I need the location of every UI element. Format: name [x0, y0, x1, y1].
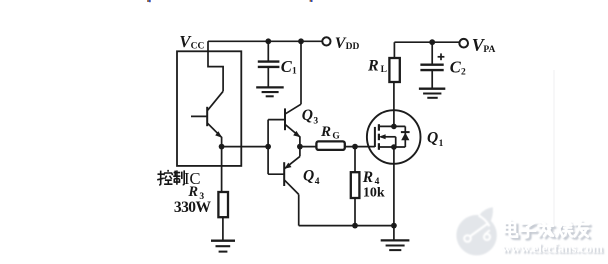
- svg-text:G: G: [332, 131, 340, 141]
- svg-text:C: C: [281, 57, 293, 76]
- transistor inside IC: [191, 91, 223, 146]
- resistor RG: [316, 141, 344, 150]
- svg-text:330W: 330W: [174, 199, 212, 216]
- wire R4 top: [354, 147, 356, 173]
- transistor Q3: [268, 104, 301, 146]
- label RG: [320, 124, 340, 142]
- label R3: [187, 184, 204, 202]
- wire bottom rail: [299, 225, 394, 227]
- label plus C2: [438, 53, 445, 60]
- label Q1: [427, 130, 444, 150]
- terminal VPA: [459, 39, 468, 48]
- wire bases vertical: [267, 120, 269, 175]
- svg-text:10k: 10k: [363, 185, 385, 200]
- label VPA: [472, 35, 496, 55]
- node VCC/C1: [265, 38, 271, 44]
- ground (main): [381, 240, 410, 250]
- svg-text:R: R: [362, 169, 373, 186]
- svg-text:C: C: [450, 57, 462, 76]
- tiny cropped mark top-middle: [310, 0, 313, 2]
- resistor RL: [389, 58, 399, 82]
- wire output to RG: [300, 146, 317, 148]
- capacitor C1: [258, 41, 280, 87]
- svg-text:2: 2: [461, 67, 466, 77]
- node push-pull output: [297, 144, 303, 150]
- label Q4: [303, 167, 320, 187]
- label RL: [367, 58, 387, 76]
- svg-text:Q: Q: [302, 107, 313, 124]
- wire VPA rail: [394, 41, 459, 43]
- terminal VDD: [322, 37, 330, 45]
- node C2 top: [429, 39, 435, 45]
- watermark logo: [456, 207, 496, 255]
- faint scan fold line: [553, 70, 555, 232]
- wire IC output to bases: [222, 146, 269, 148]
- capacitor C2: [420, 42, 443, 88]
- svg-text:L: L: [381, 65, 387, 75]
- wire to main ground: [393, 226, 395, 240]
- svg-text:Q: Q: [303, 167, 314, 184]
- resistor R4: [351, 172, 360, 198]
- svg-text:R: R: [367, 58, 379, 75]
- svg-text:4: 4: [315, 177, 320, 187]
- label C2: [450, 57, 466, 77]
- label VCC: [179, 32, 204, 51]
- label C1: [281, 57, 297, 77]
- node bases junction: [265, 144, 271, 150]
- svg-text:R: R: [320, 124, 331, 140]
- ground (C2): [419, 89, 445, 98]
- svg-text:CC: CC: [191, 41, 205, 51]
- svg-text:1: 1: [439, 139, 444, 149]
- node ground junction: [391, 223, 397, 229]
- node: IC output junction: [219, 144, 225, 150]
- svg-text:Q: Q: [427, 130, 438, 147]
- wire Q1 drain to RL: [393, 82, 395, 126]
- ground (R3): [211, 241, 235, 252]
- node VCC/Q3 collector: [298, 38, 304, 44]
- node R4 bottom: [352, 223, 358, 229]
- wire VCC rail: [208, 40, 322, 42]
- wire Q1 source down: [393, 147, 395, 226]
- node R4 top: [352, 144, 358, 150]
- label VDD: [335, 35, 360, 52]
- wire Q3 collector: [300, 41, 302, 104]
- svg-text:PA: PA: [483, 45, 495, 55]
- svg-text:www.elecfans.com: www.elecfans.com: [502, 241, 603, 256]
- svg-text:1: 1: [292, 67, 297, 77]
- watermark text 电子发烧友 www.elecfans.com: [502, 221, 605, 258]
- MOSFET Q1: [367, 110, 421, 164]
- wire RG to gate: [345, 146, 375, 148]
- label Q3: [302, 107, 319, 127]
- svg-text:DD: DD: [346, 42, 360, 52]
- resistor R3: [218, 192, 228, 217]
- wire RL top: [393, 42, 395, 58]
- svg-text:R: R: [187, 184, 198, 200]
- ground (C1): [256, 87, 284, 96]
- label 控制IC: [157, 170, 184, 185]
- control IC box: [177, 51, 241, 166]
- tiny cropped mark top-left: [147, 0, 151, 2]
- wire to R3: [221, 147, 223, 192]
- wire R3 to ground: [222, 217, 224, 240]
- svg-text:3: 3: [313, 116, 318, 126]
- wire R4 bottom: [354, 198, 356, 226]
- label R4: [362, 169, 380, 187]
- wire VCC drop into IC: [208, 41, 223, 91]
- transistor Q4: [268, 147, 300, 226]
